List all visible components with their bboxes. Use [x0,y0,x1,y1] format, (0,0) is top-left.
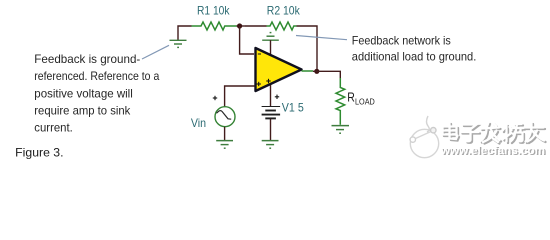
op-amp non-inverting input marker + [257,82,261,86]
ground G2 (inverted, on op-amp V- top pin) [262,33,279,56]
watermark url www.elecfans.com [440,145,547,158]
svg-text:Figure 3.: Figure 3. [15,146,63,160]
watermark logo (elecfans mark) [410,116,439,158]
svg-text:Vin: Vin [191,117,206,130]
ground G4 (below battery V1) [262,141,279,149]
wire non-inverting input to Vin [225,86,255,107]
resistor R1 [192,22,237,30]
watermark chinese glyph 发 [481,123,502,144]
svg-text:R1 10k: R1 10k [197,4,230,17]
ground G5 (below R_LOAD) [332,126,350,134]
svg-text:V1 5: V1 5 [282,101,304,114]
svg-text:R: R [347,91,355,105]
op-amp positive supply marker + [266,79,270,83]
label R_LOAD [347,91,375,107]
battery V1 [262,107,281,119]
wire R2 to feedback corner down to output node [297,26,318,69]
annotation text left [34,52,159,134]
label R1 10k [197,4,230,17]
svg-text:www.elecfans.com: www.elecfans.com [440,145,545,157]
wire R1 to node A [237,25,246,27]
wire battery to ground [270,119,272,140]
battery V1 + marker [275,95,279,99]
watermark chinese glyph 子 [461,125,480,143]
op-amp inverting input marker - [258,53,261,55]
watermark chinese glyph 烧 [503,124,526,143]
wire node A down to inverting input [240,26,254,54]
wire top rail left: ground to R1 [178,26,192,40]
wire output node to R_LOAD [313,71,340,78]
svg-text:referenced. Reference to a: referenced. Reference to a [34,69,159,83]
Vin + polarity marker [213,96,217,100]
svg-text:Feedback is ground-: Feedback is ground- [34,52,140,66]
label Vin [191,117,206,130]
svg-text:positive voltage will: positive voltage will [34,86,133,100]
node B output junction [314,69,319,74]
svg-text:LOAD: LOAD [355,96,375,106]
wire op-amp output lead [302,70,314,72]
source Vin (sine source) [215,107,235,127]
ground G1 (top left) [170,40,187,47]
node A junction [237,23,242,28]
resistor R_LOAD [336,78,345,125]
svg-text:additional load to ground.: additional load to ground. [352,49,477,63]
annotation leader line right [296,36,347,40]
label R2 10k [267,4,300,17]
annotation leader line left [142,45,169,59]
svg-text:require amp to sink: require amp to sink [34,104,131,118]
wire node A to R2 [245,25,267,27]
svg-text:R2 10k: R2 10k [267,4,300,17]
resistor R2 [267,22,297,30]
wire op-amp V+ pin to battery V1 [270,85,272,106]
caption Figure 3. [15,146,63,160]
watermark chinese glyph 友 [525,123,546,144]
annotation text right [352,33,477,63]
ground G3 (below Vin) [216,141,233,149]
wire Vin to ground [224,127,226,141]
svg-text:current.: current. [34,121,73,135]
watermark chinese glyph 电 [443,123,460,141]
op-amp U1 [256,48,302,91]
label V1 5 [282,101,304,114]
svg-text:Feedback network is: Feedback network is [352,33,451,47]
